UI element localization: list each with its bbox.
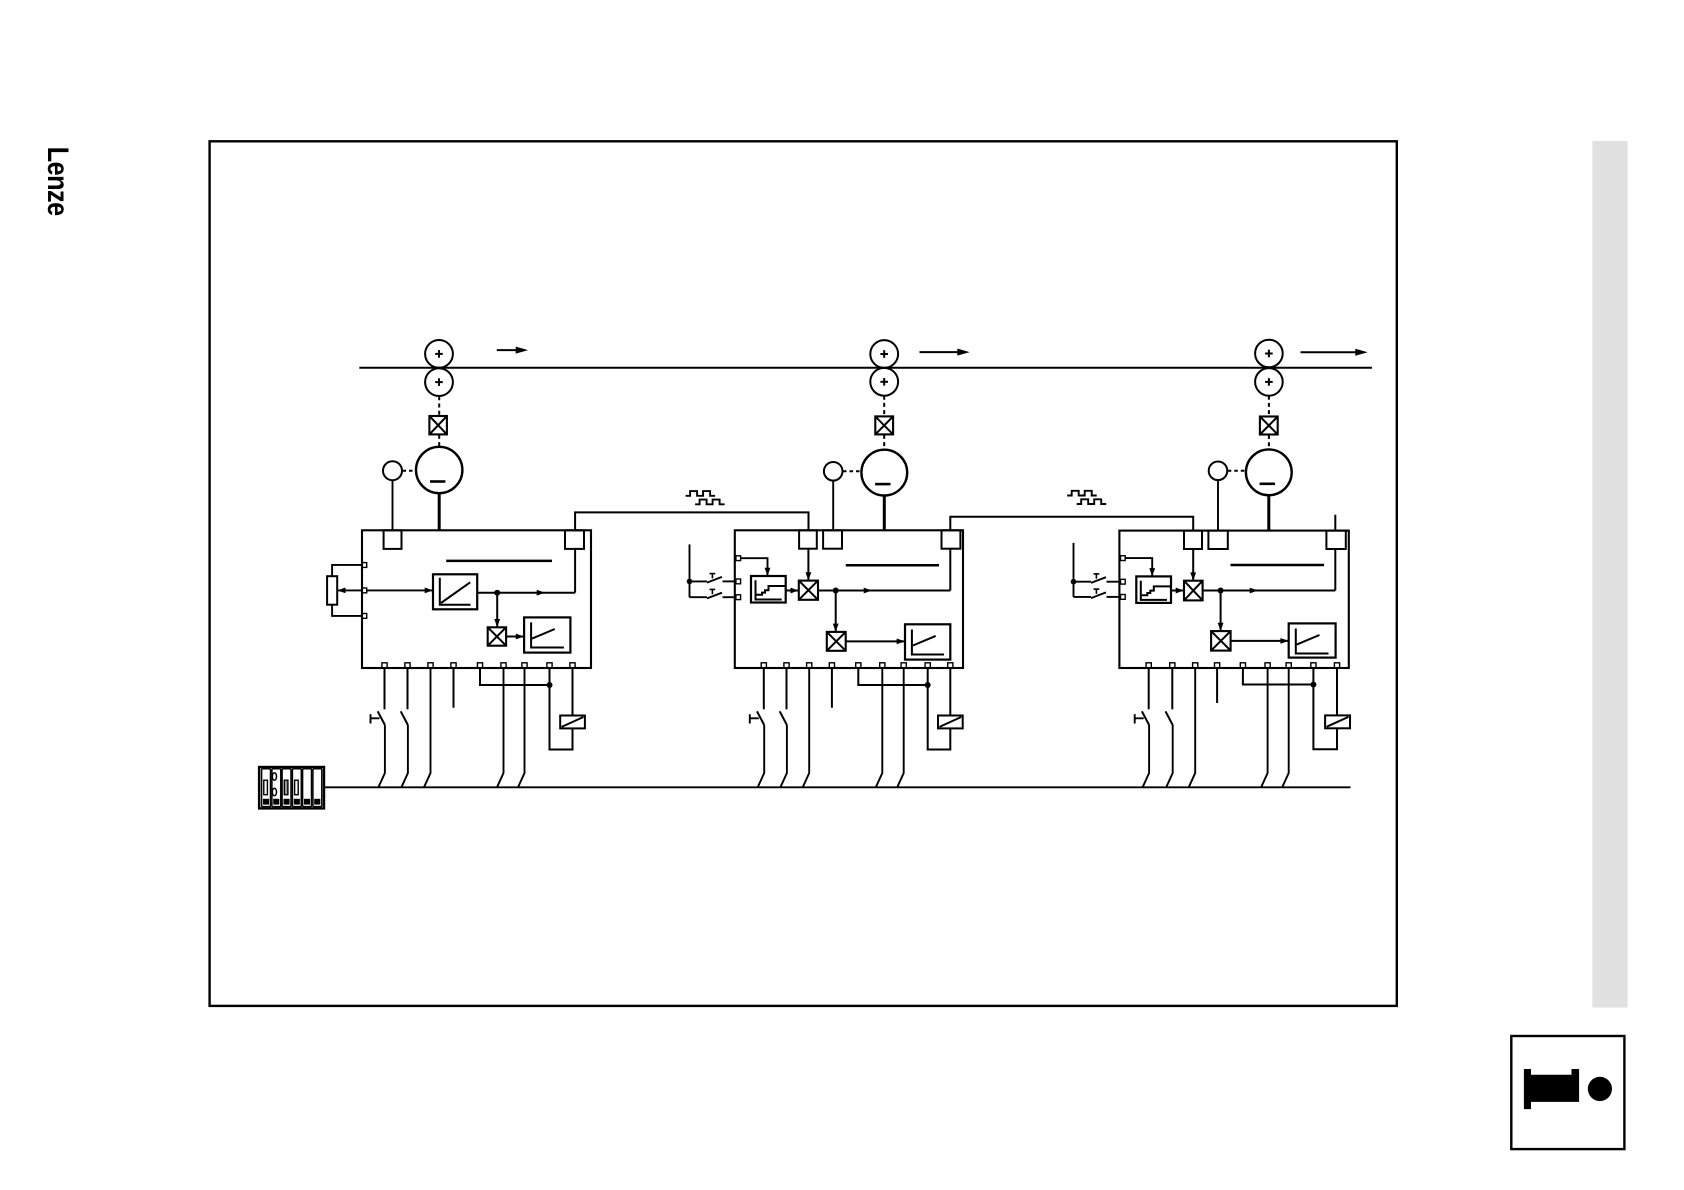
node U2 speed reference junction: [833, 588, 839, 594]
terminal U1 X8: [547, 663, 552, 668]
switch S2.1: [707, 574, 722, 583]
wire U1 X6 to PLC bus: [497, 668, 504, 787]
wire scaler to monitor block U2: [846, 639, 905, 645]
switch S3.1: [1091, 574, 1106, 583]
terminal U2 left pin 2: [736, 579, 741, 584]
wire U3 speed reference line: [1203, 588, 1336, 594]
terminal U1 X3: [428, 663, 433, 668]
wire U2 relay return: [928, 685, 951, 750]
switch S3.3 (start, manual): [1135, 668, 1149, 725]
terminal U1 left pin 3: [362, 614, 367, 619]
tachogenerator G2: [824, 462, 843, 481]
terminal U1 X4: [451, 663, 456, 668]
potentiometer R1 (setpoint): [327, 576, 337, 605]
wire web/material line: [359, 367, 1372, 369]
multiplier/scaler U2: [827, 632, 846, 651]
wire stub U3 X4: [1216, 668, 1218, 703]
multiplier/scaler U1: [488, 627, 506, 645]
switch S1.2 (enable): [401, 668, 408, 725]
wire motor M3 to controller U3: [1267, 495, 1270, 530]
wire U2 X5 to X8: [858, 668, 927, 685]
relay K1: [560, 716, 585, 729]
node U2 control junction: [687, 579, 693, 585]
web direction arrow station 2: [920, 349, 970, 356]
gearbox/coupling Z2: [875, 416, 893, 434]
wire to switch S2.2: [690, 596, 708, 598]
wire dashed shaft roller-gearbox M3: [1268, 396, 1270, 417]
relay K2: [938, 716, 963, 729]
chapter icon: motor pictogram box: [1511, 1036, 1624, 1149]
grey sidebar: [1592, 141, 1627, 1008]
wire U3 digital frequency input to multiplier: [1190, 549, 1196, 581]
roller pair S2 (nip rolls station 2): [870, 340, 898, 396]
wire stub U1 X4: [453, 668, 455, 708]
wire U1 X9 to relay K1: [572, 668, 574, 716]
wire U2 X9 to relay K2: [949, 668, 951, 716]
wire R1 wiper to U1 pin 2: [337, 588, 362, 594]
multiplier/scaler U3: [1211, 631, 1231, 651]
wire dashed shaft gearbox-motor M2: [883, 435, 885, 450]
node U1 speed reference junction: [494, 590, 500, 596]
wire R1 bottom to U1 pin 3: [332, 605, 362, 616]
U1 nameplate line: [446, 560, 552, 563]
web direction arrow station 1: [497, 347, 528, 354]
wire U3 X7 to PLC bus: [1282, 668, 1289, 787]
web direction arrow station 3: [1301, 349, 1368, 356]
wire R1 top to U1 pin 1: [332, 565, 362, 576]
terminal box U3 digital frequency input: [1184, 531, 1202, 549]
terminal U1 X7: [522, 663, 527, 668]
wire U1 X7 to PLC bus: [518, 668, 525, 787]
terminal U2 left pin 3: [736, 595, 741, 600]
wire dashed tacho-motor coupling 1: [403, 470, 416, 472]
switch S3.2: [1091, 589, 1106, 598]
drawing border frame: [210, 141, 1397, 1006]
switch S2.3 (start, manual): [750, 668, 764, 725]
multiplier (gain/stretch) U2: [799, 581, 818, 600]
terminal U3 X5: [1240, 663, 1245, 668]
terminal U3 X8: [1311, 663, 1316, 668]
terminal U3 X6: [1265, 663, 1270, 668]
terminal U3 X4: [1215, 663, 1220, 668]
terminal U1 X9: [570, 663, 575, 668]
wire U3 digital frequency output stub: [1334, 515, 1336, 531]
wire U1 X8 down: [549, 668, 551, 685]
wire ramp to multiplier U2: [786, 588, 799, 594]
terminal U2 left pin 1: [736, 556, 741, 561]
terminal U2 X8: [925, 663, 930, 668]
wire S3.4 to PLC bus: [1166, 725, 1173, 787]
wire S1.2 to PLC bus: [401, 725, 408, 787]
wire S3.3 to PLC bus: [1143, 725, 1150, 787]
node U2 X8 junction: [925, 682, 931, 688]
U3 nameplate line: [1231, 564, 1325, 567]
wire dashed shaft roller-gearbox M1: [438, 396, 440, 415]
switch S2.2: [707, 589, 722, 598]
node U3 X8 junction: [1310, 682, 1316, 688]
wire U1 relay return: [550, 685, 573, 750]
wire S2.2 to U2 pin 3: [723, 596, 736, 598]
roller pair S1 (nip rolls station 1): [425, 340, 453, 396]
wire dashed tacho-motor coupling 3: [1228, 470, 1246, 472]
wire S1.1 to PLC bus: [378, 725, 385, 787]
wire tacho G1 to controller U1: [392, 480, 394, 530]
tachogenerator G1: [383, 461, 402, 480]
wire U1 X3 to PLC bus: [424, 668, 431, 787]
wire to switch S2.1: [690, 580, 708, 582]
switch S3.4 (enable): [1166, 668, 1173, 725]
wire S3.2 to U3 pin 3: [1107, 596, 1121, 598]
wire U3 X9 to relay K3: [1336, 668, 1338, 715]
terminal U2 X3: [807, 663, 812, 668]
wire U2 X6 to PLC bus: [876, 668, 883, 787]
characteristic/monitor block U1: [524, 617, 570, 652]
U2 nameplate line: [846, 564, 939, 567]
wire U3 X8 down: [1312, 668, 1314, 685]
terminal box U3 tacho input: [1208, 531, 1227, 549]
terminal box U2 tacho input: [823, 530, 842, 548]
wire U3 X5 to X8: [1243, 668, 1314, 685]
terminal U2 X7: [901, 663, 906, 668]
wire dashed shaft gearbox-motor M1: [438, 435, 440, 446]
wire U2 control stub: [689, 544, 691, 597]
wire U1 ramp output / speed reference node: [477, 590, 575, 596]
wire dashed shaft gearbox-motor M3: [1268, 435, 1270, 449]
terminal box U3 digital frequency output: [1326, 531, 1345, 549]
gearbox/coupling Z3: [1260, 417, 1278, 435]
characteristic/monitor block U3: [1289, 623, 1336, 657]
node U1 X8 junction: [547, 682, 553, 688]
terminal box U2 digital frequency input: [799, 530, 817, 548]
wire U2 pin1 to ramp generator: [741, 558, 771, 576]
wire S3.1 to U3 pin 2: [1107, 581, 1121, 583]
terminal U1 left pin 2: [362, 588, 367, 593]
ramp generator U1: [433, 574, 477, 609]
motor M1: [416, 447, 462, 493]
tachogenerator G3: [1209, 462, 1228, 481]
terminal U3 X1: [1146, 663, 1151, 668]
wire U2 digital frequency input to multiplier: [806, 549, 812, 581]
wire U3 X6 to PLC bus: [1261, 668, 1268, 787]
terminal U2 X2: [784, 663, 789, 668]
drive controller U2 (follower): [735, 530, 963, 668]
relay K3: [1325, 715, 1350, 728]
wire dashed tacho-motor coupling 2: [843, 470, 861, 472]
wire U1 internal to output terminal: [574, 549, 576, 593]
wire ramp to multiplier U3: [1171, 588, 1184, 594]
wire to switch S3.2: [1074, 596, 1092, 598]
wire to switch S3.1: [1074, 581, 1092, 583]
terminal U1 X1: [382, 663, 387, 668]
terminal U3 left pin 2: [1121, 579, 1126, 584]
switch S1.1 (start, manual): [371, 668, 385, 725]
terminal U1 X6: [501, 663, 506, 668]
drive controller U1 (master): [362, 530, 591, 668]
wire U1 X5 to X8: [480, 668, 550, 685]
S-ramp generator U3: [1136, 576, 1171, 603]
characteristic/monitor block U2: [905, 624, 950, 659]
terminal U3 left pin 3: [1121, 595, 1126, 600]
terminal box U1 digital frequency output: [565, 530, 584, 549]
terminal U2 X6: [880, 663, 885, 668]
wire motor M1 to controller U1: [438, 494, 441, 531]
multiplier (gain/stretch) U3: [1184, 581, 1203, 601]
terminal box U1 tacho input: [384, 530, 402, 549]
wire node to multiplier U1: [494, 593, 500, 628]
terminal U1 left pin 1: [362, 563, 367, 568]
wire S2.3 to PLC bus: [758, 725, 765, 787]
wire PLC field bus: [324, 786, 1351, 788]
wire U3 relay return: [1313, 685, 1337, 750]
wire U2 X7 to PLC bus: [897, 668, 904, 787]
node U3 speed reference junction: [1218, 588, 1224, 594]
terminal U2 X4: [829, 663, 834, 668]
terminal U1 X2: [405, 663, 410, 668]
wire node to scaler U3: [1218, 591, 1224, 632]
wire multiplier to monitor block U1: [506, 634, 524, 640]
roller pair S3 (nip rolls station 3): [1255, 340, 1283, 396]
wire motor M2 to controller U2: [883, 496, 886, 531]
PLC A1: [259, 767, 324, 808]
switch S2.4 (enable): [780, 668, 787, 725]
terminal U3 X3: [1193, 663, 1198, 668]
wire node to scaler U2: [833, 591, 839, 632]
wire U3 X3 to PLC bus: [1189, 668, 1196, 787]
motor M3: [1246, 449, 1292, 495]
wire tacho G3 to controller U3: [1217, 480, 1219, 530]
terminal U3 X7: [1286, 663, 1291, 668]
wire U2 speed reference line: [818, 588, 950, 594]
terminal U2 X1: [761, 663, 766, 668]
wire U2 internal to output terminal: [949, 549, 951, 591]
terminal U1 X5: [477, 663, 482, 668]
node U3 control junction: [1071, 579, 1077, 585]
terminal U3 X9: [1334, 663, 1339, 668]
motor M2: [861, 450, 907, 496]
wire U3 control stub: [1073, 543, 1075, 597]
wire tacho G2 to controller U2: [832, 481, 834, 531]
gearbox/coupling Z1: [429, 416, 447, 434]
wire stub U2 X4: [831, 668, 833, 708]
terminal U2 X9: [948, 663, 953, 668]
wire U3 pin1 to ramp generator: [1125, 558, 1155, 576]
terminal U3 X2: [1170, 663, 1175, 668]
wire U3 internal to output terminal: [1334, 549, 1336, 591]
wire dashed shaft roller-gearbox M2: [883, 396, 885, 416]
wire digital frequency link U1-U2: [575, 512, 808, 530]
terminal U3 left pin 1: [1121, 556, 1126, 561]
wire U2 X8 down: [927, 668, 929, 685]
wire U1 setpoint to ramp generator: [367, 588, 433, 594]
terminal box U2 digital frequency output: [942, 530, 961, 548]
wire digital frequency link U2-U3: [950, 517, 1193, 531]
Lenze logo (rotated): [40, 147, 74, 207]
wire S2.1 to U2 pin 2: [723, 580, 736, 582]
wire S2.4 to PLC bus: [780, 725, 787, 787]
wire U2 X3 to PLC bus: [803, 668, 810, 787]
wire scaler to monitor block U3: [1231, 638, 1289, 644]
S-ramp generator U2: [751, 576, 786, 603]
drive controller U3 (follower): [1119, 531, 1348, 668]
digital frequency symbol link 2: [1067, 491, 1097, 496]
terminal U2 X5: [856, 663, 861, 668]
digital frequency symbol link 1: [686, 491, 716, 496]
